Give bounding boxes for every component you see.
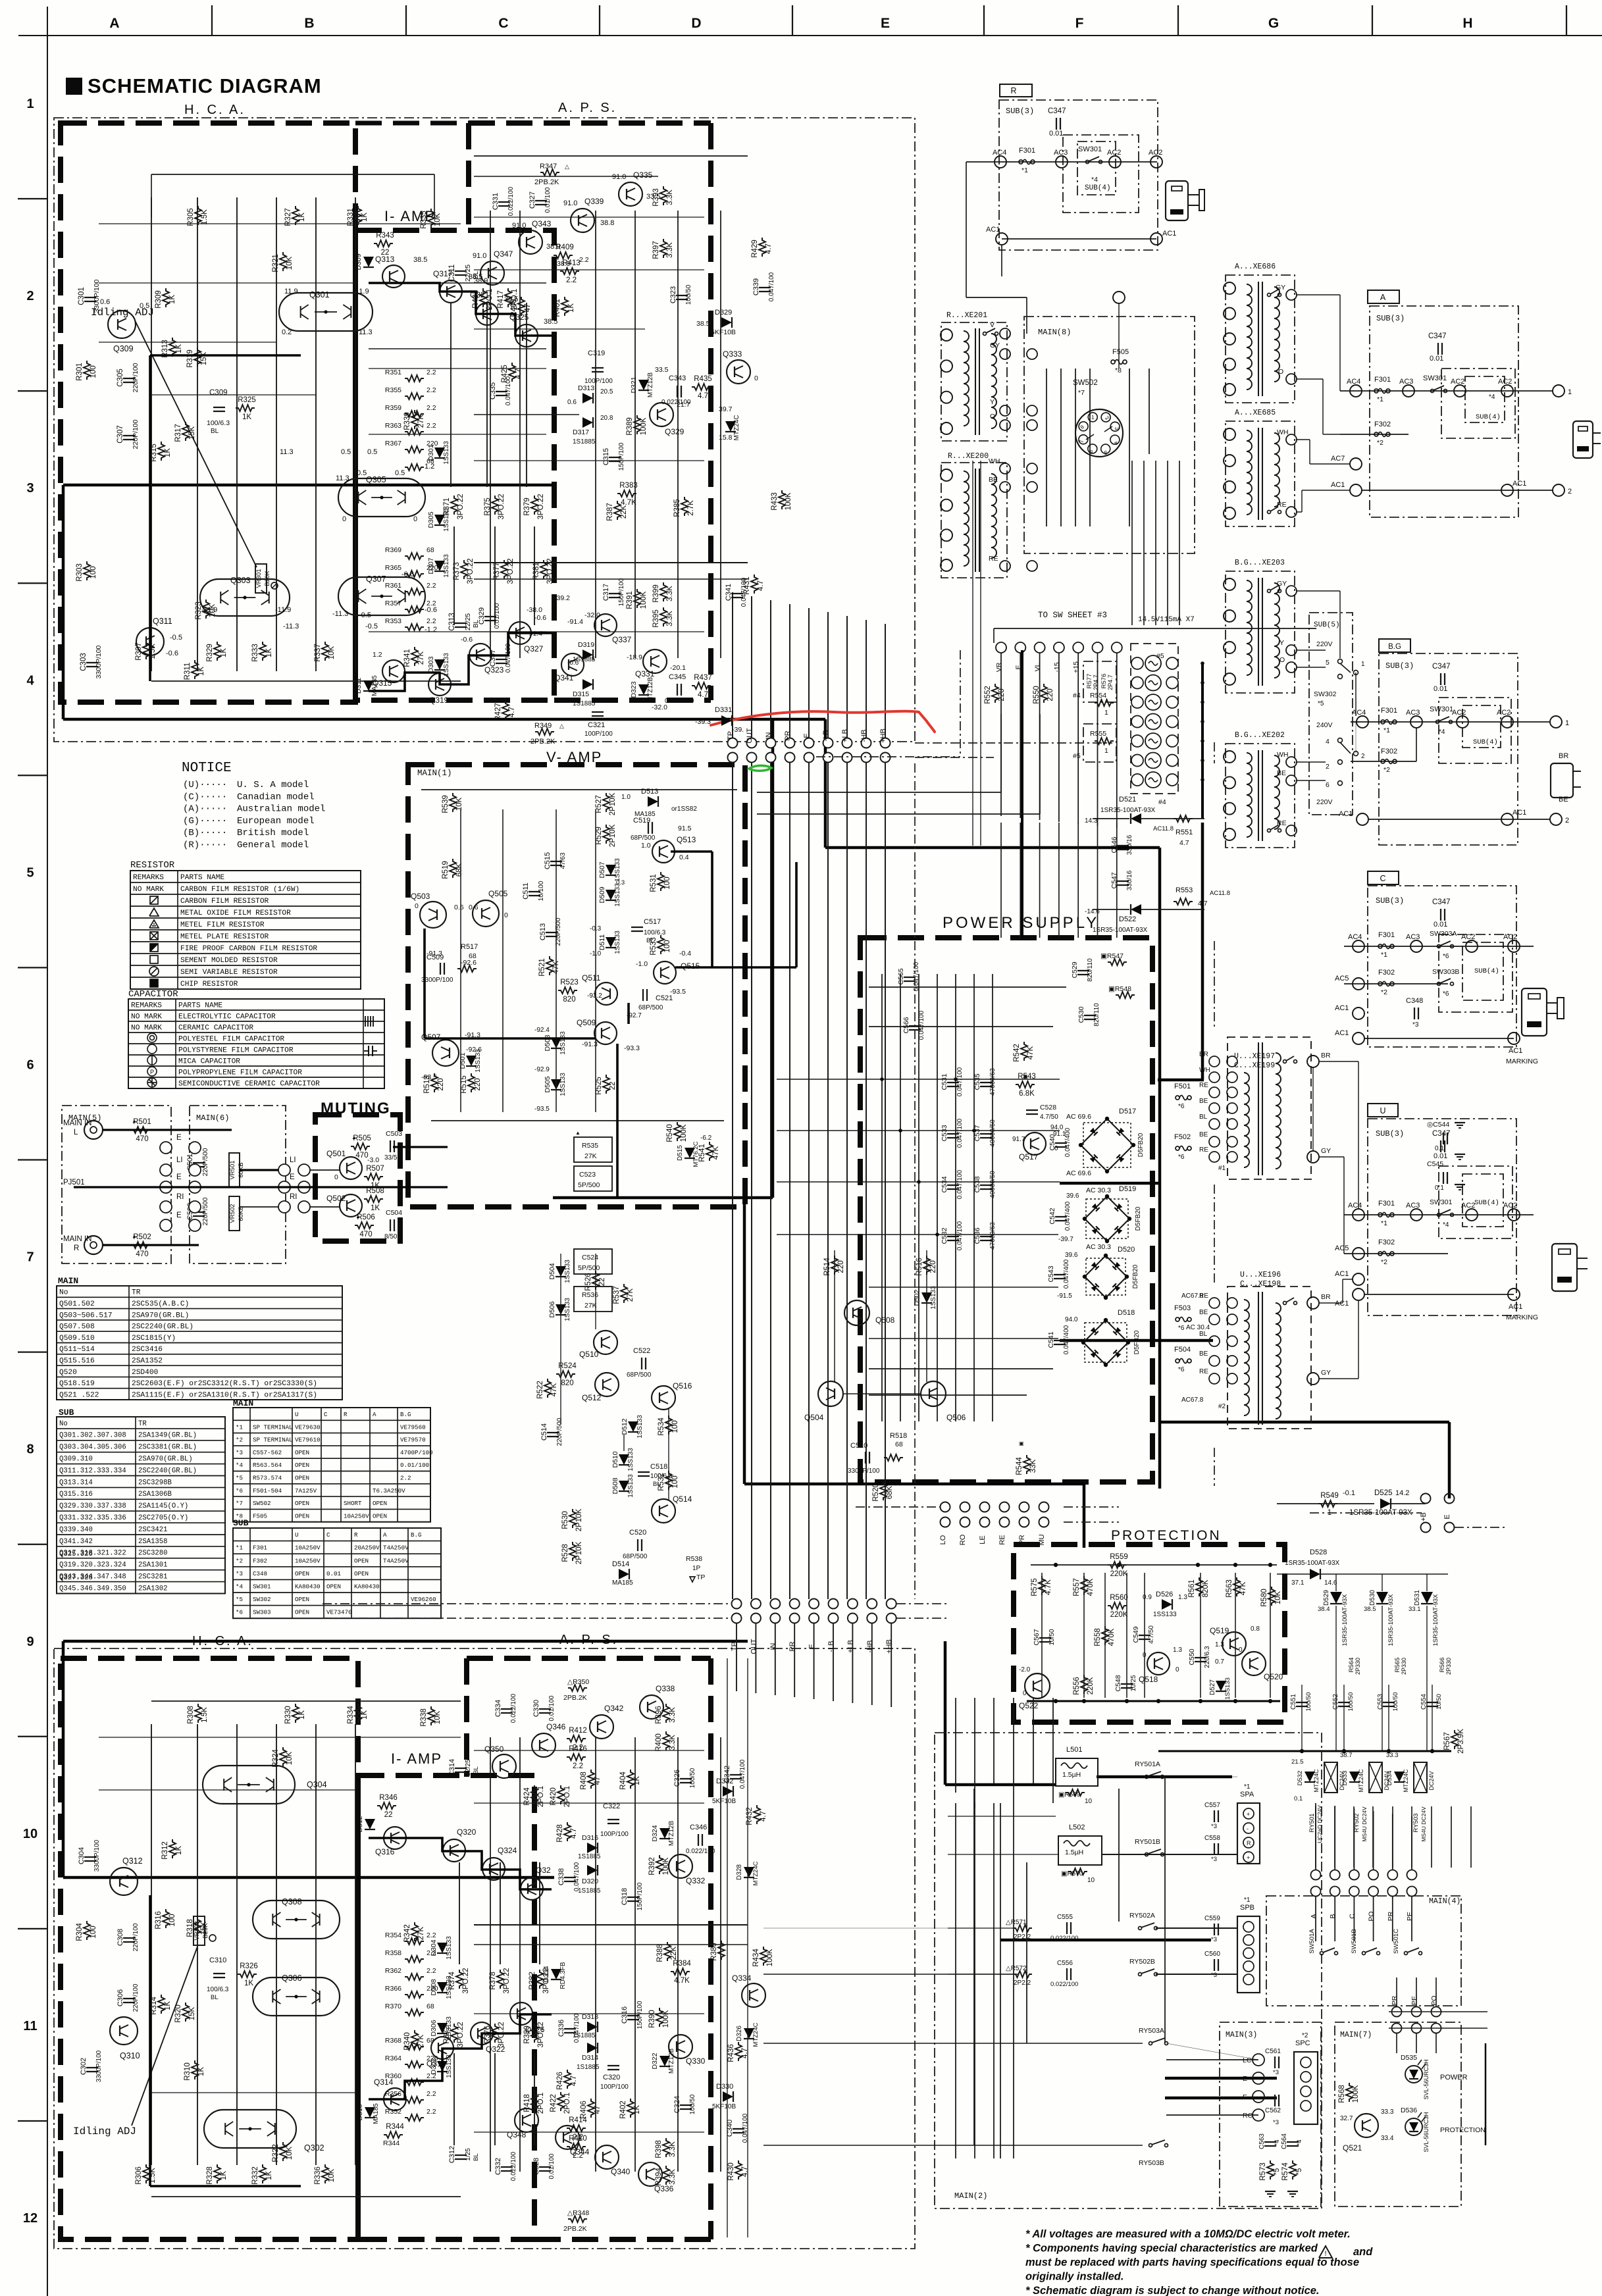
resistor R312 xyxy=(169,1839,176,1858)
svg-text:-1.2: -1.2 xyxy=(425,626,437,634)
svg-text:MAIN(1): MAIN(1) xyxy=(417,769,452,778)
svg-text:AC4: AC4 xyxy=(1348,933,1362,941)
resistor R323 xyxy=(203,600,209,619)
POWER SUPPLY block dashed box xyxy=(860,938,1152,1482)
svg-text:R322: R322 xyxy=(272,2144,280,2162)
svg-text:PROTECTION: PROTECTION xyxy=(1111,1528,1222,1543)
inductor L502 box xyxy=(1058,1836,1102,1865)
B.G C347 xyxy=(1440,673,1441,685)
svg-text:150P/100: 150P/100 xyxy=(636,1882,644,1910)
svg-text:0.5: 0.5 xyxy=(341,448,351,456)
transformer XE197 xyxy=(1227,1037,1311,1179)
svg-text:Q509: Q509 xyxy=(577,1018,596,1027)
svg-text:MS4U DC24V: MS4U DC24V xyxy=(1361,1806,1368,1842)
svg-text:2.2: 2.2 xyxy=(573,1762,583,1770)
svg-text:C515: C515 xyxy=(544,852,552,869)
MAIN4 to MAIN7 link verticals xyxy=(1396,1977,1397,2007)
svg-text:C521: C521 xyxy=(656,994,673,1002)
svg-text:AC 30.3: AC 30.3 xyxy=(1086,1186,1111,1194)
bus wire V-AMP right vertical xyxy=(771,721,775,1198)
svg-text:D319: D319 xyxy=(578,641,594,649)
diode D502 xyxy=(921,1292,932,1303)
svg-text:R326: R326 xyxy=(240,1962,258,1970)
svg-text:100K: 100K xyxy=(662,2010,670,2028)
svg-text:*1: *1 xyxy=(1381,951,1387,959)
svg-text:2.2: 2.2 xyxy=(566,276,577,284)
svg-text:R...XE201: R...XE201 xyxy=(946,311,987,320)
svg-text:BL: BL xyxy=(473,1766,480,1774)
svg-text:*3: *3 xyxy=(1211,1823,1217,1830)
svg-text:RE: RE xyxy=(1199,1368,1208,1375)
svg-text:0.01/100: 0.01/100 xyxy=(494,603,501,628)
svg-text:(A)·····: (A)····· xyxy=(183,804,227,815)
svg-text:AC4: AC4 xyxy=(1352,709,1366,717)
resistor R391 xyxy=(634,589,640,608)
svg-text:220: 220 xyxy=(929,1260,937,1273)
svg-text:-HB: -HB xyxy=(860,730,868,742)
svg-text:C504: C504 xyxy=(386,1209,402,1217)
svg-text:220K: 220K xyxy=(1087,1677,1095,1695)
svg-text:D317: D317 xyxy=(573,428,589,436)
svg-text:R344: R344 xyxy=(386,2123,404,2131)
svg-text:D508: D508 xyxy=(611,1477,619,1494)
svg-text:Y: Y xyxy=(1279,639,1284,647)
svg-text:G: G xyxy=(1268,16,1279,31)
svg-text:E: E xyxy=(176,1134,182,1142)
svg-text:*1: *1 xyxy=(1381,1219,1387,1227)
semi-variable resistor VR301 xyxy=(255,564,267,593)
transistor Q318 xyxy=(431,2037,453,2059)
svg-text:Q308: Q308 xyxy=(282,1897,302,1906)
svg-text:1: 1 xyxy=(1091,415,1095,421)
svg-text:C533: C533 xyxy=(941,1125,948,1141)
svg-text:0.022/100: 0.022/100 xyxy=(686,1848,715,1855)
svg-text:*2: *2 xyxy=(236,1437,243,1444)
svg-text:RY502A: RY502A xyxy=(1129,1912,1155,1920)
svg-text:C524: C524 xyxy=(582,1254,598,1262)
svg-text:220P/500: 220P/500 xyxy=(202,1148,209,1176)
resistor R375 xyxy=(492,496,498,515)
capacitor C332 xyxy=(501,2166,513,2168)
XE196 secondary BR GY xyxy=(1307,1297,1319,1309)
H.C.A. top-edge extension wire xyxy=(355,121,469,126)
MAIN boundary dash-dot vertical xyxy=(1214,742,1215,763)
bottom I-AMP resistor ladder upper xyxy=(405,1938,424,1945)
svg-text:330/16: 330/16 xyxy=(1126,834,1133,855)
svg-text:C...XE198: C...XE198 xyxy=(1240,1280,1281,1288)
svg-text:D315: D315 xyxy=(573,690,589,698)
svg-text:D321: D321 xyxy=(630,376,638,393)
svg-text:R521: R521 xyxy=(538,958,546,977)
XE197 to power verticals xyxy=(1312,1067,1314,1152)
capacitor C314 xyxy=(455,1768,467,1769)
svg-text:2.2: 2.2 xyxy=(426,422,436,430)
svg-text:C307: C307 xyxy=(116,425,124,444)
resistor R433 xyxy=(779,490,785,509)
svg-text:-0.1: -0.1 xyxy=(1343,1489,1355,1497)
svg-text:Q515: Q515 xyxy=(681,961,700,971)
capacitor C562 xyxy=(1274,2095,1276,2106)
svg-text:SUB(3): SUB(3) xyxy=(1385,661,1414,671)
capacitor C324 xyxy=(680,2105,692,2106)
svg-text:27K: 27K xyxy=(584,1152,597,1160)
svg-text:220: 220 xyxy=(1046,688,1054,701)
MAIN7 connector horizontals xyxy=(1389,2011,1487,2012)
resistor R567 xyxy=(1451,1730,1458,1749)
svg-text:C314: C314 xyxy=(448,1759,456,1776)
svg-text:22/25: 22/25 xyxy=(465,1759,472,1775)
capacitor C556 xyxy=(1066,1968,1068,1980)
svg-text:DC24V: DC24V xyxy=(1428,1771,1435,1790)
B.G fuse F301 xyxy=(1381,720,1385,724)
svg-text:F301: F301 xyxy=(1374,376,1391,384)
svg-text:C555: C555 xyxy=(1057,1914,1073,1921)
bus wire bottom section upper xyxy=(63,1640,748,1643)
transistor Q332 xyxy=(669,1854,692,1878)
svg-text:BL: BL xyxy=(211,1994,219,2001)
resistor R341 xyxy=(411,647,418,666)
svg-text:R337: R337 xyxy=(314,644,322,662)
svg-text:-18.9: -18.9 xyxy=(627,653,642,661)
MTZ24C zener group D532 xyxy=(1305,1772,1315,1782)
svg-text:NO MARK: NO MARK xyxy=(131,1013,162,1021)
power supply mid horizontal wires xyxy=(869,1079,1060,1080)
svg-text:-93.2: -93.2 xyxy=(587,992,602,1000)
capacitor C307 xyxy=(123,435,135,436)
svg-text:1SR35-100AT-93X: 1SR35-100AT-93X xyxy=(1341,1594,1349,1646)
svg-text:10/50: 10/50 xyxy=(1048,1629,1056,1645)
H.C.A. inner verticals xyxy=(151,197,152,671)
svg-text:Q317: Q317 xyxy=(433,269,453,278)
svg-text:1K: 1K xyxy=(175,344,183,353)
R model label box xyxy=(1000,84,1032,97)
svg-text:2PB.2K: 2PB.2K xyxy=(563,1694,587,1702)
capacitor C312 xyxy=(455,2155,467,2156)
switch SW501A xyxy=(1320,1952,1324,1955)
svg-text:2SA1306B: 2SA1306B xyxy=(138,1491,172,1498)
svg-text:22K: 22K xyxy=(670,1946,678,1960)
svg-text:R311: R311 xyxy=(184,663,192,680)
capacitor C320b xyxy=(607,2065,619,2066)
svg-text:MAIN(2): MAIN(2) xyxy=(954,2191,987,2201)
svg-text:470: 470 xyxy=(359,1231,372,1238)
svg-text:C339: C339 xyxy=(752,278,760,295)
svg-text:BL: BL xyxy=(473,2153,480,2161)
svg-text:Q350: Q350 xyxy=(484,1745,504,1754)
svg-text:1K: 1K xyxy=(168,295,176,304)
svg-text:R541: R541 xyxy=(698,1144,706,1162)
svg-text:T4A250V: T4A250V xyxy=(383,1544,409,1552)
capacitor C343 xyxy=(677,386,678,397)
capacitor symbol electrolytic xyxy=(365,1016,373,1027)
svg-text:9: 9 xyxy=(26,1635,34,1649)
svg-text:4.7: 4.7 xyxy=(760,1811,767,1822)
svg-text:1SS133: 1SS133 xyxy=(475,1049,482,1073)
svg-text:R558: R558 xyxy=(1094,1628,1102,1646)
svg-text:R377: R377 xyxy=(493,562,501,580)
svg-text:3: 3 xyxy=(1114,427,1120,430)
bridge D518 dotted outline xyxy=(1085,1323,1127,1362)
resistor R385 xyxy=(681,497,688,516)
svg-text:1SS133: 1SS133 xyxy=(614,858,621,882)
capacitor C513 xyxy=(546,932,557,933)
svg-text:Q501.502: Q501.502 xyxy=(59,1300,95,1308)
transistor Q329 xyxy=(650,403,673,426)
svg-text:Q313.314: Q313.314 xyxy=(59,1479,93,1487)
svg-text:2SC1815(Y): 2SC1815(Y) xyxy=(132,1335,176,1342)
svg-text:BL: BL xyxy=(1199,1113,1208,1121)
svg-text:C315: C315 xyxy=(602,448,610,465)
svg-text:240V: 240V xyxy=(1316,721,1333,729)
svg-text:68: 68 xyxy=(469,952,477,960)
svg-text:0.1: 0.1 xyxy=(1435,1185,1444,1192)
resistor R321 xyxy=(280,252,286,271)
svg-text:OPEN: OPEN xyxy=(373,1512,387,1519)
svg-text:1K: 1K xyxy=(197,2067,205,2076)
bottom H.C.A. bottom rail xyxy=(151,2196,461,2197)
dual transistor Q308 xyxy=(253,1901,340,1939)
capacitor C316b xyxy=(627,2015,639,2016)
svg-text:RY501: RY501 xyxy=(1308,1814,1316,1833)
resistor R327 xyxy=(292,206,299,225)
capacitor C340 xyxy=(733,2128,744,2130)
svg-text:C348: C348 xyxy=(253,1570,267,1577)
svg-text:-0.5: -0.5 xyxy=(359,611,371,619)
svg-text:*5: *5 xyxy=(1273,2168,1281,2176)
diode D511 xyxy=(606,937,616,948)
svg-text:C517: C517 xyxy=(644,918,661,926)
svg-text:7A125V: 7A125V xyxy=(295,1487,317,1494)
svg-text:0.047/100: 0.047/100 xyxy=(956,1118,964,1148)
svg-text:Q301.302.307.308: Q301.302.307.308 xyxy=(59,1432,126,1440)
svg-text:39.6: 39.6 xyxy=(1066,1192,1079,1200)
svg-text:D310: D310 xyxy=(356,2104,364,2120)
capacitor C518 xyxy=(638,1471,650,1473)
svg-text:C511: C511 xyxy=(522,882,530,899)
svg-text:R364: R364 xyxy=(385,2054,401,2062)
transistor Q325 xyxy=(515,324,538,347)
V-AMP lower cluster wires xyxy=(560,1254,561,1425)
svg-text:C560: C560 xyxy=(1204,1951,1220,1958)
svg-text:D519: D519 xyxy=(1119,1185,1136,1193)
svg-text:RE: RE xyxy=(1199,1082,1208,1089)
svg-text:10K: 10K xyxy=(286,256,294,270)
svg-text:R552: R552 xyxy=(984,686,992,704)
capacitor C547 xyxy=(1117,880,1129,882)
svg-text:#1: #1 xyxy=(1218,1165,1226,1172)
svg-text:3300P/100: 3300P/100 xyxy=(93,279,101,313)
capacitor C560 xyxy=(1214,1959,1215,1971)
resistor R336 xyxy=(322,2164,328,2183)
svg-text:SEMI VARIABLE RESISTOR: SEMI VARIABLE RESISTOR xyxy=(180,969,278,977)
A section plug xyxy=(1573,421,1593,458)
svg-text:10K: 10K xyxy=(328,646,336,659)
svg-text:20.8: 20.8 xyxy=(600,415,613,422)
svg-text:0.6: 0.6 xyxy=(454,904,464,911)
resistor R575 xyxy=(1039,1576,1045,1595)
svg-text:A: A xyxy=(373,1411,376,1418)
resistor R421 xyxy=(480,288,486,307)
svg-text:100K: 100K xyxy=(766,1949,774,1966)
svg-text:▣R569: ▣R569 xyxy=(1058,1791,1081,1799)
svg-text:2PB.2K: 2PB.2K xyxy=(563,2225,587,2233)
svg-text:1K: 1K xyxy=(298,1710,306,1720)
svg-text:R427: R427 xyxy=(494,703,502,721)
transistor Q337 xyxy=(594,614,617,636)
svg-text:7: 7 xyxy=(1079,440,1085,443)
svg-text:D536: D536 xyxy=(1401,2106,1417,2114)
bus wire power right vertical xyxy=(1158,848,1162,1489)
diode D526 xyxy=(1162,1599,1172,1610)
svg-text:220V: 220V xyxy=(1316,798,1333,806)
bottom I-AMP resistor ladder lower xyxy=(405,2043,424,2050)
svg-text:0.022/100: 0.022/100 xyxy=(1050,1981,1078,1988)
svg-text:R514: R514 xyxy=(823,1258,831,1276)
svg-text:0.6: 0.6 xyxy=(567,399,577,406)
diode D317 xyxy=(582,417,593,428)
SUB(5) selector dashed box xyxy=(1309,613,1353,815)
svg-text:Q325.326: Q325.326 xyxy=(59,1550,93,1558)
transistor Q506 xyxy=(921,1381,946,1406)
svg-text:820: 820 xyxy=(561,1379,573,1387)
bus wire relay feed horizontal to L501 xyxy=(945,1783,1056,1787)
svg-text:PO: PO xyxy=(1368,1911,1376,1921)
svg-text:R371: R371 xyxy=(443,497,451,516)
svg-text:BE: BE xyxy=(1199,1309,1208,1316)
MAIN(3) dashed box xyxy=(1220,2022,1321,2207)
svg-text:C346: C346 xyxy=(690,1824,707,1831)
svg-text:91.0: 91.0 xyxy=(612,173,626,181)
svg-text:R432: R432 xyxy=(746,1807,754,1825)
Idling ADJ pointer line top xyxy=(135,320,257,567)
svg-text:38.7: 38.7 xyxy=(1340,1752,1353,1759)
svg-text:Q511: Q511 xyxy=(582,973,601,982)
B.G SUB(3) dashed box xyxy=(1379,653,1518,845)
svg-text:Q303.304.305.306: Q303.304.305.306 xyxy=(59,1444,126,1452)
svg-text:R336: R336 xyxy=(314,2166,322,2185)
svg-text:0.01/100: 0.01/100 xyxy=(544,187,552,213)
capacitor C563 C564 xyxy=(1264,2141,1276,2143)
svg-text:Q311: Q311 xyxy=(153,617,172,626)
svg-text:Q307: Q307 xyxy=(366,574,386,584)
resistor R437 xyxy=(692,682,711,689)
misc power-supply dots xyxy=(880,1077,884,1081)
svg-text:10: 10 xyxy=(1085,1798,1093,1805)
svg-text:0.01: 0.01 xyxy=(1434,1152,1447,1160)
svg-text:C313: C313 xyxy=(448,613,456,631)
MAIN(8) to power supply drop wires xyxy=(1131,461,1133,625)
svg-text:BE: BE xyxy=(1277,769,1286,777)
svg-text:2SC3421: 2SC3421 xyxy=(138,1526,168,1534)
svg-text:*8: *8 xyxy=(1115,367,1122,374)
svg-text:D5FB20: D5FB20 xyxy=(1133,1330,1141,1354)
svg-text:R317: R317 xyxy=(174,424,182,442)
svg-text:-39.3: -39.3 xyxy=(695,718,711,726)
svg-text:B20K: B20K xyxy=(202,1923,209,1939)
svg-text:METEL PLATE RESISTOR: METEL PLATE RESISTOR xyxy=(180,933,269,941)
resistor R311 xyxy=(192,660,198,679)
capacitor C553 xyxy=(1383,1702,1395,1703)
svg-text:AC67.8: AC67.8 xyxy=(1181,1292,1204,1300)
svg-text:*3: *3 xyxy=(236,1570,243,1577)
resistor R563 xyxy=(1233,1577,1240,1596)
svg-text:AC3: AC3 xyxy=(1406,1202,1420,1210)
svg-text:OPEN: OPEN xyxy=(295,1462,309,1469)
capacitor C522 xyxy=(641,1358,642,1369)
svg-text:1K: 1K xyxy=(164,448,172,457)
svg-text:F505: F505 xyxy=(1112,348,1129,356)
svg-text:SUB(3): SUB(3) xyxy=(1376,1129,1404,1138)
svg-text:C318: C318 xyxy=(621,1888,629,1905)
svg-text:R527: R527 xyxy=(595,795,603,813)
svg-text:1.5K: 1.5K xyxy=(201,1707,209,1723)
svg-text:Q503~506.517: Q503~506.517 xyxy=(59,1312,113,1319)
svg-text:33.1: 33.1 xyxy=(1408,1606,1421,1613)
muting rail wires xyxy=(103,1129,232,1131)
svg-text:-LB: -LB xyxy=(822,730,830,741)
svg-text:F302: F302 xyxy=(253,1557,267,1564)
svg-text:NOTICE: NOTICE xyxy=(182,761,232,776)
svg-text:*1: *1 xyxy=(236,1423,244,1431)
svg-text:10/100: 10/100 xyxy=(538,880,545,901)
svg-text:C514: C514 xyxy=(540,1423,548,1441)
resistor R534 xyxy=(665,1416,672,1435)
capacitor C327 xyxy=(535,200,547,201)
svg-text:C: C xyxy=(326,1531,330,1539)
svg-text:-92.4: -92.4 xyxy=(534,1027,550,1034)
svg-text:-6.2: -6.2 xyxy=(700,1135,712,1142)
resistor R374 xyxy=(456,1970,463,1989)
svg-text:#2: #2 xyxy=(1218,1403,1226,1410)
svg-text:1SR35-100AT-93X: 1SR35-100AT-93X xyxy=(1100,807,1156,814)
svg-text:METAL OXIDE FILM RESISTOR: METAL OXIDE FILM RESISTOR xyxy=(180,909,291,917)
svg-text:R417: R417 xyxy=(497,290,505,309)
svg-text:D528: D528 xyxy=(1310,1548,1327,1556)
svg-text:PARTS NAME: PARTS NAME xyxy=(180,874,224,882)
MAIN(8) wiring verticals xyxy=(1046,369,1047,526)
ground symbols SPC xyxy=(1265,2191,1276,2192)
resistor R328 xyxy=(214,2164,220,2183)
svg-text:33.5: 33.5 xyxy=(655,366,669,374)
svg-text:R522: R522 xyxy=(536,1381,544,1399)
svg-text:R532: R532 xyxy=(658,1473,665,1491)
svg-text:R528: R528 xyxy=(561,1544,569,1562)
transistor Q512 xyxy=(595,1373,619,1396)
svg-text:2P330: 2P330 xyxy=(1445,1658,1452,1675)
transistor Q321 xyxy=(476,303,498,325)
svg-text:Q338: Q338 xyxy=(656,1684,675,1693)
bus wire bridge output horizontal xyxy=(1060,1182,1160,1185)
svg-text:R359: R359 xyxy=(385,404,401,412)
svg-text:R310: R310 xyxy=(184,2062,192,2081)
svg-text:VE79610: VE79610 xyxy=(295,1437,321,1444)
resistor R346 xyxy=(377,1802,396,1809)
svg-text:D505: D505 xyxy=(544,1076,552,1092)
svg-text:R388: R388 xyxy=(656,1944,664,1962)
svg-text:▣: ▣ xyxy=(1023,1073,1028,1079)
capacitor C339 xyxy=(759,287,771,288)
diode D312 xyxy=(365,1819,375,1829)
svg-text:C563: C563 xyxy=(1258,2133,1266,2149)
resistor R430 xyxy=(735,2160,742,2180)
svg-text:-32.0: -32.0 xyxy=(584,611,600,619)
svg-text:SW501C: SW501C xyxy=(1393,1929,1400,1954)
I-AMP bottom heavy trace upper xyxy=(369,1838,552,1889)
XE196 tap circles xyxy=(1209,1298,1220,1308)
svg-text:47K: 47K xyxy=(1239,1581,1247,1595)
svg-text:3300P/100: 3300P/100 xyxy=(848,1467,880,1475)
svg-text:R374: R374 xyxy=(448,1972,456,1990)
